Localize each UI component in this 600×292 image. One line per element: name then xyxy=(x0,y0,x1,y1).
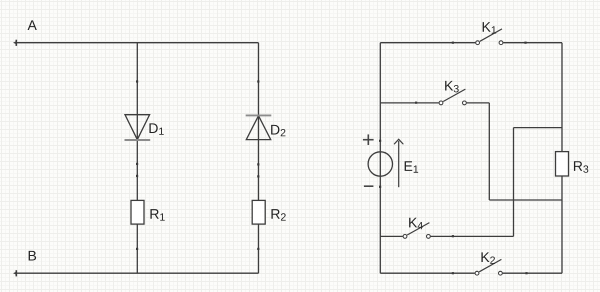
junction dot above E1 xyxy=(379,140,381,142)
label D1 xyxy=(149,123,163,134)
wire right vertical of right circuit xyxy=(561,43,563,274)
wire bottom horizontal of right circuit (left of K2 gap) xyxy=(380,272,475,274)
node B label xyxy=(29,251,36,261)
wire bottom horizontal of right circuit (right of K2 gap) xyxy=(503,272,562,274)
junction dot on branch 1 below D1 xyxy=(136,163,138,165)
junction dot below E1 xyxy=(379,186,381,188)
junction dot on branch 2 above D2 xyxy=(257,80,259,82)
switch K1 xyxy=(452,29,527,45)
wire K4 branch horizontal (right of gap) xyxy=(431,235,514,237)
wire horizontal from right vertical to inner vertical (top of R3 bypass) xyxy=(514,127,563,129)
label D2 xyxy=(271,125,285,136)
label R3 xyxy=(574,161,588,173)
wire K3 branch vertical down xyxy=(488,103,490,200)
resistor R2 xyxy=(252,200,265,224)
junction dot on branch 2 below R2 xyxy=(257,248,259,250)
label R1 xyxy=(150,209,164,220)
label K4 xyxy=(409,218,423,229)
diode D2 (cathode up) xyxy=(246,115,272,139)
wire K3 branch horizontal (right of gap) xyxy=(467,102,490,104)
wire B (bottom horizontal of left circuit) xyxy=(13,270,259,276)
resistor R1 xyxy=(131,200,144,224)
wire K3 branch horizontal (left of gap) xyxy=(380,102,439,104)
wire top horizontal of right circuit (right of K1 gap) xyxy=(503,42,562,44)
resistor R3 xyxy=(556,152,569,176)
label K3 xyxy=(445,81,459,93)
source E1 circle xyxy=(368,152,392,176)
wire horizontal connecting K3 branch to R3 bottom xyxy=(489,199,562,201)
wire branch 1 vertical (A to B through D1,R1) xyxy=(136,43,138,274)
node A label xyxy=(28,20,37,30)
diode D1 (cathode down) xyxy=(125,115,151,140)
junction dot on branch 2 above R2 xyxy=(257,175,259,177)
wire K4 branch horizontal (left of gap) xyxy=(380,235,403,237)
wire top horizontal of right circuit (left of K1 gap) xyxy=(380,42,475,44)
junction dot on branch 1 below R1 xyxy=(136,248,138,250)
plus sign of E1 xyxy=(363,134,374,145)
junction dot on branch 1 above D1 xyxy=(136,80,138,82)
label K2 xyxy=(481,252,495,263)
label E1 xyxy=(405,161,419,172)
label R2 xyxy=(271,209,285,220)
switch K3 xyxy=(415,89,466,105)
wire left vertical of right circuit xyxy=(379,43,381,274)
wire inner vertical (crosses K3-R3 link, down to K4) xyxy=(513,128,515,237)
switch K2 xyxy=(452,259,528,275)
junction dot on branch 1 above R1 xyxy=(136,175,138,177)
wire branch 2 vertical (A to B through D2,R2) xyxy=(258,43,260,274)
minus sign of E1 xyxy=(364,185,374,187)
junction dot on branch 2 below D2 xyxy=(257,163,259,165)
wire A (top horizontal of left circuit) xyxy=(13,40,259,46)
switch K4 xyxy=(403,223,454,239)
label K1 xyxy=(483,22,497,33)
arrow for E1 direction xyxy=(394,139,403,187)
